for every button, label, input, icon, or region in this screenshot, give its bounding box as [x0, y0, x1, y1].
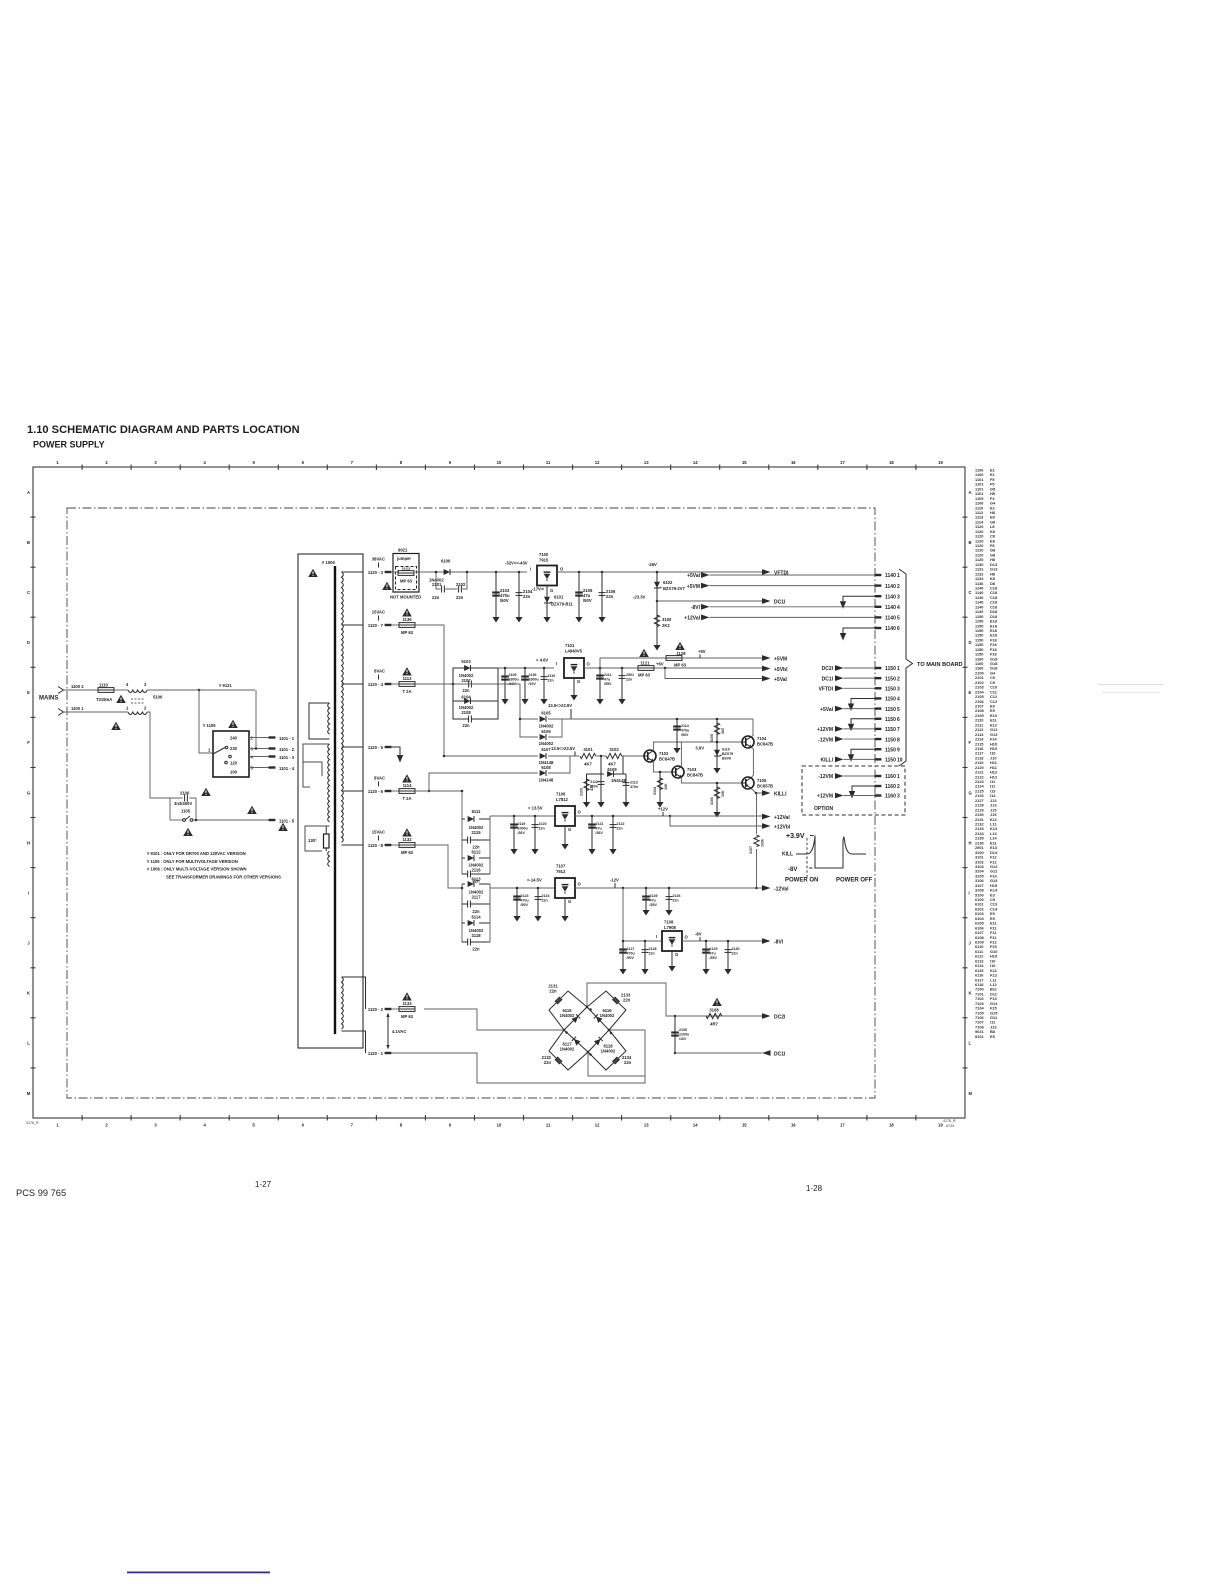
- svg-text:3300u: 3300u: [509, 678, 519, 682]
- svg-text:1N4002: 1N4002: [560, 1013, 575, 1018]
- wire mains bottom vertical: [147, 712, 150, 798]
- svg-text:L: L: [27, 1041, 30, 1046]
- capacitor 2111 47u/50V: [599, 668, 601, 695]
- svg-text:4: 4: [897, 605, 900, 611]
- svg-text:-32V<>-43V: -32V<>-43V: [505, 561, 528, 566]
- capacitor 2113 470n: [625, 774, 627, 798]
- svg-text:G: G: [568, 899, 571, 904]
- svg-text:# 9101 : ONLY FOR DR700 AND 12: # 9101 : ONLY FOR DR700 AND 120VAC VERSI…: [147, 851, 246, 856]
- svg-text:22n: 22n: [624, 1060, 632, 1065]
- capacitor 2119 1000u/36V: [513, 815, 516, 818]
- 7103 emitter down to rail B: [681, 777, 742, 783]
- svg-text:2129: 2129: [710, 947, 718, 951]
- G pin with zener 6101 BZX79-B11: [546, 586, 548, 614]
- transistor Q7104 BC847B: [742, 736, 754, 748]
- svg-text:17: 17: [840, 1123, 845, 1128]
- svg-text:47u: 47u: [710, 952, 716, 956]
- svg-text:-17V: -17V: [532, 587, 541, 592]
- svg-text:POWER OFF: POWER OFF: [836, 878, 873, 884]
- svg-text:5: 5: [897, 616, 900, 622]
- svg-text:/36V: /36V: [518, 831, 526, 835]
- capacitor 2132 22n: [555, 1057, 562, 1064]
- svg-text:I: I: [656, 934, 657, 939]
- svg-text:3: 3: [154, 460, 157, 465]
- svg-text:1121: 1121: [640, 661, 650, 666]
- svg-text:2: 2: [105, 460, 108, 465]
- svg-text:11: 11: [546, 1123, 551, 1128]
- svg-text:2125: 2125: [650, 894, 658, 898]
- svg-text:1150: 1150: [885, 666, 896, 672]
- svg-text:22n: 22n: [456, 595, 464, 600]
- svg-text:+3.9V: +3.9V: [786, 833, 805, 840]
- svg-text:NOT MOUNTED: NOT MOUNTED: [390, 595, 421, 600]
- ladder bus left: [461, 791, 463, 874]
- svg-text:3300u: 3300u: [529, 678, 539, 682]
- warning triangle on +5V rails: [639, 649, 649, 657]
- svg-text:1101 - 5: 1101 - 5: [279, 819, 295, 824]
- svg-text:6: 6: [302, 460, 305, 465]
- connector pin 1140-2: [875, 584, 882, 586]
- svg-text:1120 - 7: 1120 - 7: [368, 623, 384, 628]
- bridge node dots: [586, 1006, 589, 1009]
- svg-text:13: 13: [644, 460, 649, 465]
- svg-text:22n: 22n: [623, 998, 631, 1003]
- svg-text:+12VM: +12VM: [817, 727, 833, 733]
- svg-text:8: 8: [897, 737, 900, 743]
- input rail to 7106: [490, 815, 554, 817]
- bridge diamond bottom-right: [588, 1030, 626, 1070]
- svg-text:2123: 2123: [521, 894, 529, 898]
- connector pin 1150-10: [875, 758, 882, 760]
- svg-text:1: 1: [126, 706, 129, 711]
- svg-text:-8V: -8V: [788, 867, 797, 873]
- svg-text:A: A: [969, 490, 972, 495]
- capacitor 2106 22n: [601, 571, 604, 574]
- svg-text:470u: 470u: [681, 729, 689, 733]
- svg-text:22n: 22n: [548, 679, 554, 683]
- svg-text:7103: 7103: [687, 767, 697, 772]
- svg-text:1N4002: 1N4002: [601, 1049, 616, 1054]
- svg-text:100: 100: [230, 770, 238, 775]
- svg-text:1N4002: 1N4002: [600, 1013, 615, 1018]
- rail 13.5-23.5V: [562, 718, 753, 720]
- svg-text:/50V: /50V: [583, 598, 592, 603]
- thermal fuse 130deg: [324, 834, 330, 848]
- svg-text:2: 2: [897, 676, 900, 682]
- svg-text:1120 - 5: 1120 - 5: [368, 745, 384, 750]
- svg-text:2114: 2114: [681, 724, 689, 728]
- connector pin 1140-1: [875, 574, 882, 576]
- svg-text:1000u: 1000u: [518, 827, 528, 831]
- capacitor 2122 22n: [612, 815, 615, 818]
- wire bridge top node to output: [587, 983, 675, 1016]
- svg-text:D: D: [27, 640, 30, 645]
- svg-text:-26V: -26V: [648, 562, 657, 567]
- svg-text:2111: 2111: [604, 673, 612, 677]
- svg-text:DC1l: DC1l: [822, 676, 834, 682]
- wire 8VAC input: [415, 683, 453, 685]
- transformer core: [334, 566, 336, 1034]
- svg-text:I: I: [530, 567, 531, 572]
- svg-text:3: 3: [144, 682, 147, 687]
- svg-text:MP 63: MP 63: [638, 673, 651, 678]
- svg-text:4176_R: 4176_R: [26, 1121, 39, 1125]
- svg-text:1140: 1140: [885, 616, 896, 622]
- svg-text:MAINS: MAINS: [39, 696, 58, 702]
- svg-text:1136: 1136: [402, 617, 412, 622]
- ladder bus right: [489, 884, 491, 942]
- svg-text:# 9121: # 9121: [219, 683, 232, 688]
- svg-text:240: 240: [230, 736, 238, 741]
- connector pin 1140-4: [875, 606, 882, 608]
- svg-text:1150: 1150: [885, 676, 896, 682]
- svg-text:G: G: [675, 952, 678, 957]
- svg-text:14: 14: [693, 1123, 698, 1128]
- svg-text:19: 19: [938, 1123, 943, 1128]
- svg-text:2127: 2127: [627, 947, 635, 951]
- svg-text:9101: 9101: [975, 1034, 984, 1039]
- svg-text:7105: 7105: [757, 778, 767, 783]
- svg-text:16: 16: [791, 1123, 796, 1128]
- zener 6110 BZX79-B3V6: [716, 742, 718, 764]
- connector pin 1150-4: [875, 697, 882, 699]
- diode 6109 1N4148 bypass: [601, 756, 623, 774]
- svg-text:18: 18: [889, 1123, 894, 1128]
- contact 230: [225, 746, 228, 749]
- svg-text:4: 4: [897, 697, 900, 703]
- svg-text:22n: 22n: [432, 595, 440, 600]
- svg-text:47u: 47u: [650, 899, 656, 903]
- wire mains bottom: [64, 711, 129, 713]
- svg-text:/16V: /16V: [679, 1037, 687, 1041]
- svg-text:6734: 6734: [946, 1124, 954, 1128]
- svg-text:7: 7: [351, 1123, 354, 1128]
- svg-text:2122: 2122: [617, 822, 625, 826]
- svg-text:22n: 22n: [606, 594, 614, 599]
- resistor 3107 100k: [754, 835, 759, 847]
- svg-text:/35V: /35V: [650, 903, 658, 907]
- svg-text:L4940V5: L4940V5: [565, 649, 583, 654]
- svg-text:+5Val: +5Val: [774, 677, 788, 683]
- svg-text:4: 4: [204, 1123, 207, 1128]
- wire fuse to inductor: [114, 689, 128, 691]
- capacitor 2114 470u/50V: [676, 718, 679, 721]
- wire 9121 jumper down: [255, 690, 257, 749]
- svg-text:2107: 2107: [461, 678, 471, 683]
- svg-text:13.5<>23.5V: 13.5<>23.5V: [551, 746, 575, 751]
- rail A to 7104 base: [716, 741, 719, 744]
- capacitor 2109 3300u/16V: [504, 667, 507, 670]
- svg-text:15VAC: 15VAC: [372, 830, 385, 835]
- svg-text:6110: 6110: [722, 748, 730, 752]
- warning triangle transformer: [308, 569, 318, 577]
- svg-text:1120 - 1: 1120 - 1: [368, 1051, 384, 1056]
- svg-text:6101: 6101: [554, 595, 564, 600]
- contact row 4: [229, 755, 232, 758]
- output arrow VFTDl: [762, 569, 771, 575]
- transistor Q7102 BC847B: [644, 750, 656, 762]
- svg-text:5: 5: [251, 766, 254, 771]
- svg-text:KILLl: KILLl: [774, 792, 787, 798]
- svg-text:3.9V: 3.9V: [695, 746, 704, 751]
- svg-text:O: O: [560, 567, 564, 572]
- svg-text:4R7: 4R7: [710, 1022, 718, 1027]
- svg-text:# 1006: # 1006: [322, 560, 335, 565]
- svg-text:22n: 22n: [617, 827, 623, 831]
- svg-text:1114: 1114: [403, 783, 413, 788]
- svg-text:1-27: 1-27: [255, 1180, 272, 1189]
- svg-text:3104: 3104: [653, 787, 657, 795]
- -12Val output: [755, 887, 758, 890]
- svg-text:E: E: [27, 690, 30, 695]
- warning triangle below mains: [111, 722, 121, 730]
- svg-text:2116: 2116: [471, 868, 481, 873]
- svg-text:G: G: [550, 588, 553, 593]
- svg-text:3: 3: [154, 1123, 157, 1128]
- svg-text:9: 9: [449, 460, 452, 465]
- DC1l return wire: [674, 1052, 677, 1055]
- svg-text:5100: 5100: [153, 695, 163, 700]
- svg-text:1100 2: 1100 2: [71, 684, 84, 689]
- svg-text:E: E: [969, 690, 972, 695]
- warning triangle under switch: [183, 828, 193, 836]
- svg-text:5: 5: [897, 707, 900, 713]
- svg-text:O: O: [587, 662, 591, 667]
- output rail +12V: [575, 815, 670, 817]
- svg-text:BC847B: BC847B: [687, 773, 703, 778]
- svg-text:1150: 1150: [885, 758, 896, 764]
- svg-text:B: B: [27, 540, 30, 545]
- 7102 collector to rail A: [653, 742, 742, 751]
- svg-text:DC1l: DC1l: [774, 600, 786, 606]
- connector pin 1140-5: [875, 616, 882, 618]
- connector pin 1150-9: [875, 748, 882, 750]
- capacitor 2123 470u/50V: [516, 887, 519, 890]
- svg-text:38VAC: 38VAC: [372, 557, 385, 562]
- svg-text:POWER ON: POWER ON: [785, 878, 818, 884]
- ladder bus left: [461, 884, 463, 942]
- svg-text:1110: 1110: [99, 683, 109, 688]
- 7103 collector up to rail A: [680, 742, 682, 767]
- svg-text:3100: 3100: [662, 617, 672, 622]
- svg-text:POWER SUPPLY: POWER SUPPLY: [33, 440, 105, 450]
- svg-text:1101 - 4: 1101 - 4: [279, 766, 295, 771]
- svg-text:12: 12: [595, 460, 600, 465]
- svg-text:1150: 1150: [885, 697, 896, 703]
- connector pin 1150-5: [875, 707, 882, 709]
- svg-text:13: 13: [644, 1123, 649, 1128]
- svg-text:1150: 1150: [885, 687, 896, 693]
- capacitor 2120 22n: [534, 815, 537, 818]
- svg-text:G: G: [568, 827, 571, 832]
- svg-text:3101: 3101: [583, 747, 593, 752]
- resistor 3108 4R7: [675, 1015, 762, 1017]
- svg-text:B3V6: B3V6: [722, 757, 731, 761]
- drawing frame: [27, 460, 973, 1128]
- svg-text:H: H: [27, 840, 30, 845]
- connector pin 1150-2: [875, 677, 882, 679]
- resistor 3102 4K7: [606, 753, 622, 758]
- svg-text:BZX79-2V7: BZX79-2V7: [663, 586, 686, 591]
- svg-text:D: D: [969, 640, 972, 645]
- bus to diode 6108: [429, 773, 538, 791]
- diode 6115 1N4002: [571, 1014, 580, 1023]
- svg-text:/36V: /36V: [596, 831, 604, 835]
- svg-text:470u: 470u: [627, 952, 635, 956]
- connector 1100 pin 1: [58, 709, 64, 716]
- resistor 3103 47K: [587, 774, 602, 798]
- primary connection wires: [309, 703, 330, 739]
- svg-text:2200u: 2200u: [679, 1033, 689, 1037]
- svg-text:BC847B: BC847B: [757, 742, 773, 747]
- svg-text:F: F: [969, 740, 972, 745]
- svg-text:1101 - 2: 1101 - 2: [279, 747, 295, 752]
- svg-text:7104: 7104: [757, 736, 767, 741]
- svg-text:-8Vl: -8Vl: [774, 940, 784, 946]
- svg-text:47u: 47u: [596, 827, 602, 831]
- resistor 3105 360: [716, 718, 719, 721]
- svg-text:7108: 7108: [664, 920, 674, 925]
- svg-text:1: 1: [897, 573, 900, 579]
- svg-text:1140: 1140: [885, 584, 896, 590]
- svg-text:# 1105 : ONLY FOR MULTIVOLTAGE: # 1105 : ONLY FOR MULTIVOLTAGE VERSION: [147, 859, 238, 864]
- svg-text:2: 2: [105, 1123, 108, 1128]
- svg-text:9021: 9021: [398, 548, 408, 553]
- svg-text:<-14.5V: <-14.5V: [527, 878, 542, 883]
- svg-text:L7908: L7908: [664, 925, 677, 930]
- wire down to selector pin1: [199, 690, 213, 753]
- svg-text:OPTION: OPTION: [814, 806, 834, 812]
- bridge diamond bottom-left: [549, 1030, 588, 1070]
- -8Vl output arrow: [762, 938, 771, 944]
- svg-text:BZX79: BZX79: [722, 752, 733, 756]
- svg-text:> 4.6V: > 4.6V: [536, 658, 548, 663]
- warning triangle at 2100: [201, 788, 211, 796]
- svg-text:6105: 6105: [541, 711, 551, 716]
- svg-text:22n: 22n: [544, 1060, 552, 1065]
- svg-text:1: 1: [56, 460, 59, 465]
- svg-text:MP 63: MP 63: [401, 1014, 414, 1019]
- svg-text:100k: 100k: [761, 839, 765, 847]
- svg-text:18: 18: [889, 460, 894, 465]
- svg-text:jumper: jumper: [396, 556, 411, 561]
- svg-text:1133: 1133: [402, 1001, 412, 1006]
- svg-text:22n: 22n: [523, 594, 531, 599]
- svg-text:6104: 6104: [461, 695, 471, 700]
- wire 3102 to 7102 base: [622, 755, 644, 757]
- doubler diode 6104: [453, 684, 498, 701]
- svg-text:2: 2: [897, 784, 900, 790]
- junction to 7108: [622, 887, 625, 890]
- capacitor 2135 2200u/16V: [674, 1015, 677, 1018]
- svg-text:7102: 7102: [659, 751, 669, 756]
- capacitor 2103 470u/50V: [495, 571, 498, 574]
- svg-text:10: 10: [497, 460, 502, 465]
- svg-text:3: 3: [897, 594, 900, 600]
- 7104 emitter down to 7105 collector: [751, 747, 753, 777]
- svg-text:8VAC: 8VAC: [374, 776, 385, 781]
- connector pin 1150-7: [875, 728, 882, 730]
- node -23.3V wire to DC1l: [656, 600, 659, 603]
- svg-text:BC847B: BC847B: [659, 757, 675, 762]
- svg-text:1140: 1140: [885, 594, 896, 600]
- svg-text:C: C: [27, 590, 30, 595]
- pcb dash-dot border: [67, 508, 875, 1098]
- svg-text:-12VM: -12VM: [818, 737, 833, 743]
- bridge diamond top-right: [587, 991, 626, 1030]
- svg-text:+12Val: +12Val: [774, 815, 790, 821]
- warning triangle selector: [228, 720, 238, 728]
- svg-text:+5VM: +5VM: [687, 584, 700, 590]
- svg-text:2: 2: [144, 706, 147, 711]
- svg-text:7: 7: [897, 727, 900, 733]
- svg-text:6108: 6108: [541, 765, 551, 770]
- wire 38VAC to regulator: [415, 571, 527, 573]
- svg-text:6: 6: [897, 626, 900, 632]
- svg-text:+12V: +12V: [658, 807, 668, 812]
- svg-text:T 2A: T 2A: [402, 796, 411, 801]
- svg-text:12: 12: [595, 1123, 600, 1128]
- transistor Q7103 BC847B: [672, 766, 684, 778]
- input rail to 7107: [490, 887, 554, 889]
- svg-text:MP 63: MP 63: [401, 630, 414, 635]
- connector pin 1160-2: [875, 785, 882, 787]
- switch arm: [213, 748, 225, 755]
- svg-text:2113: 2113: [630, 781, 638, 785]
- svg-text:22n: 22n: [549, 989, 557, 994]
- join 6107/6108 outputs: [548, 756, 579, 773]
- svg-text:2: 2: [251, 736, 254, 741]
- zener 6102 BZX79-2V7: [656, 571, 659, 574]
- svg-text:470u: 470u: [521, 899, 529, 903]
- faint scan marks: [1098, 684, 1163, 685]
- capacitor 2501 22n: [621, 667, 624, 670]
- diode 6118 1N4002: [594, 1037, 603, 1046]
- svg-text:+12Val: +12Val: [684, 616, 700, 622]
- svg-text:-23.3V: -23.3V: [633, 595, 646, 600]
- ladder bus right: [489, 816, 491, 874]
- svg-text:1150: 1150: [885, 727, 896, 733]
- svg-text:19: 19: [938, 460, 943, 465]
- connector pin 1140-6: [875, 627, 882, 629]
- svg-text:13.5<>23.5V: 13.5<>23.5V: [548, 703, 572, 708]
- svg-text:2126: 2126: [673, 894, 681, 898]
- svg-text:8: 8: [400, 460, 403, 465]
- svg-text:KILL: KILL: [782, 852, 793, 858]
- svg-text:/50V: /50V: [681, 733, 689, 737]
- secondary winding lower: [342, 977, 344, 1029]
- svg-text:/50V: /50V: [627, 956, 635, 960]
- svg-text:22n: 22n: [472, 947, 480, 952]
- svg-text:1140: 1140: [885, 605, 896, 611]
- svg-text:22n: 22n: [649, 952, 655, 956]
- svg-text:6: 6: [897, 717, 900, 723]
- svg-text:# 1006 : ONLY MULTI-VOLTAGE VE: # 1006 : ONLY MULTI-VOLTAGE VERSION SHOW…: [147, 867, 247, 872]
- capacitor 2104 22n: [518, 571, 521, 574]
- svg-text:1: 1: [897, 774, 900, 780]
- svg-text:120: 120: [230, 761, 238, 766]
- wire 1120-2 to bridge left node: [424, 1009, 564, 1030]
- capacitor 2136 3300u/16V: [524, 667, 527, 670]
- selector box: [213, 731, 249, 777]
- svg-text:1140: 1140: [885, 626, 896, 632]
- svg-text:2119: 2119: [518, 822, 526, 826]
- svg-text:4176_R: 4176_R: [943, 1119, 956, 1123]
- svg-text:+5Vbl: +5Vbl: [774, 667, 788, 673]
- svg-text:1101 - 1: 1101 - 1: [279, 736, 295, 741]
- svg-text:8: 8: [400, 1123, 403, 1128]
- connector pin 1140-3: [875, 595, 882, 597]
